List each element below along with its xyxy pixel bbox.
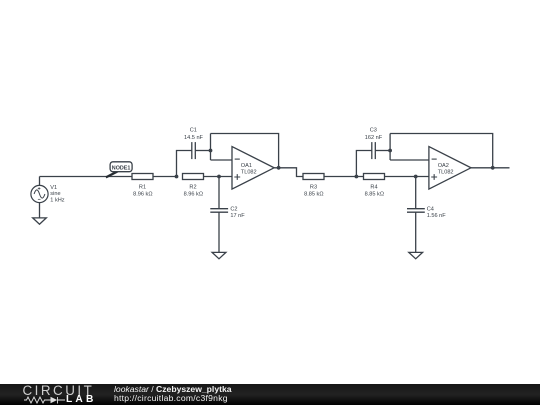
label R4 8.85 k	[365, 185, 384, 198]
svg-text:C1: C1	[190, 128, 197, 134]
node A junction	[175, 175, 179, 179]
wire OA1 output to R3	[274, 168, 303, 177]
label C2 17 nF	[230, 207, 245, 219]
svg-text:8.85 kΩ: 8.85 kΩ	[304, 191, 323, 197]
svg-text:R3: R3	[310, 185, 317, 191]
label R1 8.96 k	[133, 185, 152, 198]
svg-text:OA2: OA2	[438, 163, 449, 169]
svg-text:8.96 kΩ: 8.96 kΩ	[184, 191, 203, 197]
wire main net to R1	[40, 176, 133, 178]
label R2 8.96 k	[184, 185, 203, 198]
resistor R3	[303, 174, 324, 180]
svg-text:sine: sine	[50, 191, 60, 197]
wire C4 to ground	[415, 212, 417, 252]
ground below C2	[212, 252, 226, 258]
svg-text:V1: V1	[50, 185, 57, 191]
svg-text:8.85 kΩ: 8.85 kΩ	[365, 191, 384, 197]
wire C1 to feedback node	[195, 150, 210, 152]
junction OA2 output	[491, 166, 495, 170]
capacitor C2	[210, 209, 228, 213]
op-amp OA1	[232, 147, 274, 190]
footer bar	[0, 384, 540, 405]
wire feedback vertical to OA2 inverting input	[390, 134, 429, 161]
wire down to C4	[415, 177, 417, 209]
op-amp OA2	[429, 147, 471, 190]
wire R3 to R4	[324, 176, 364, 178]
label R3 8.85 k	[304, 185, 323, 198]
svg-text:TL082: TL082	[241, 169, 257, 175]
svg-text:R1: R1	[139, 185, 146, 191]
svg-text:C2: C2	[230, 207, 237, 213]
capacitor C4	[407, 209, 425, 213]
svg-text:R2: R2	[189, 185, 196, 191]
svg-text:NODE1: NODE1	[112, 165, 131, 171]
wire node C up to C3	[356, 151, 371, 177]
wire feedback loop OA1	[211, 134, 279, 168]
voltage source V1	[31, 185, 48, 202]
junction C2 branch	[217, 175, 221, 179]
svg-text:R4: R4	[370, 185, 377, 191]
wire C2 to ground	[218, 212, 220, 252]
junction C1/feedback	[209, 149, 213, 153]
node NODE1 flag	[106, 162, 132, 178]
svg-text:14.5 nF: 14.5 nF	[184, 135, 204, 141]
node C junction	[355, 175, 359, 179]
svg-text:C3: C3	[370, 128, 377, 134]
ground below V1	[33, 218, 47, 224]
ground below C4	[409, 252, 423, 258]
CircuitLab logo	[23, 383, 95, 398]
wire V1 top to main net	[39, 177, 41, 186]
wire V1 bottom to ground	[39, 203, 41, 218]
wire R1 to node A	[153, 176, 177, 178]
wire R4 to OA2 plus input	[385, 176, 429, 178]
svg-text:C4: C4	[427, 207, 434, 213]
label V1 sine 1 kHz	[50, 185, 65, 204]
label C4 1.56 nF	[427, 207, 447, 219]
resistor R4	[364, 174, 385, 180]
footer text	[114, 385, 232, 394]
svg-text:1.56 nF: 1.56 nF	[427, 213, 447, 219]
wire node A up to C1	[177, 151, 192, 177]
svg-text:162 nF: 162 nF	[365, 135, 383, 141]
resistor R2	[183, 174, 204, 180]
wire feedback loop OA2	[390, 134, 493, 168]
capacitor C1	[192, 142, 196, 159]
label C1 14.5 nF	[184, 128, 204, 141]
resistor R1	[132, 174, 153, 180]
junction C3/feedback	[388, 149, 392, 153]
wire R2 to OA1 plus input	[204, 176, 233, 178]
wire feedback vertical to inverting input	[211, 134, 233, 161]
capacitor C3	[372, 142, 376, 159]
label C3 162 nF	[365, 128, 383, 141]
junction OA1 output	[277, 166, 281, 170]
svg-text:8.96 kΩ: 8.96 kΩ	[133, 191, 152, 197]
svg-text:OA1: OA1	[241, 163, 252, 169]
svg-text:TL082: TL082	[438, 169, 454, 175]
svg-text:1 kHz: 1 kHz	[50, 198, 65, 204]
svg-text:17 nF: 17 nF	[230, 213, 245, 219]
wire C3 to feedback node	[375, 150, 390, 152]
wire OA2 output	[471, 167, 510, 169]
wire down to C2	[218, 177, 220, 209]
junction C4 branch	[414, 175, 418, 179]
